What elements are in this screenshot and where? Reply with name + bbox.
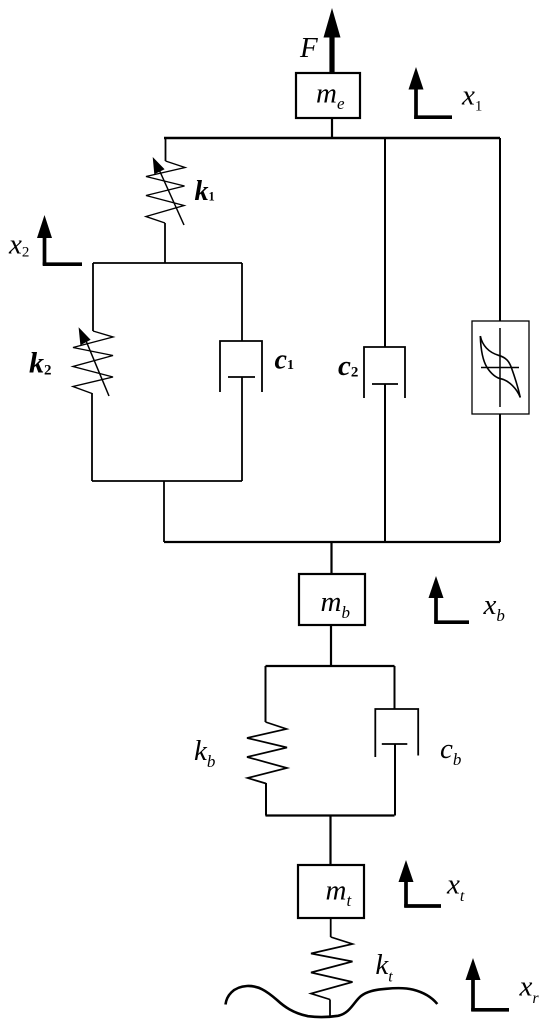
adjust arrow through k1 [153,157,184,225]
wire mt to spring kt [330,918,332,937]
wire top rail to hysteresis element [499,138,501,321]
label kt [375,949,393,986]
wire top rail to spring k1 [165,137,167,161]
force arrow F [324,8,341,73]
wire to damper cb [394,666,396,709]
wire from me to top rail [331,118,333,138]
label kb [194,735,215,771]
mass mt [298,865,364,918]
wire top rail to damper c2 [384,138,386,347]
axis xb [429,576,505,625]
hysteresis element box [472,321,529,414]
spring kt [311,937,353,1000]
kb-cb top rail wire [266,665,395,667]
lower rail wire [164,541,500,543]
axis xr [466,958,540,1011]
road profile [226,986,438,1017]
wire spring kb to bottom rail [265,783,267,816]
damper cb [375,709,418,816]
wire mb to kb-cb frame [330,625,332,666]
label k2 [29,347,52,380]
axis x1 [409,67,483,119]
kb-cb bottom rail wire [266,814,395,816]
inner top rail wire [93,262,242,264]
inner bottom rail wire [92,480,242,482]
axis xt [399,860,465,907]
wire kb-cb frame to mass mt [329,816,331,866]
top rail wire [164,137,500,139]
wire inner rail to spring k2 [92,263,94,331]
label cb [440,733,461,769]
wire spring k1 to inner rail [164,223,166,263]
spring k2 [73,331,113,394]
wire spring k2 to inner bottom rail [91,393,93,481]
mass me [296,73,360,118]
svg-text:F: F [299,32,318,64]
wire lower rail to mass mb [330,542,332,574]
label k1 [195,176,215,207]
spring k1 [146,161,185,223]
wire to spring kb [265,666,267,722]
label c2 [338,350,358,382]
axis x2 [8,215,82,265]
wire inner rail to damper c1 [241,263,243,341]
wire hysteresis element to lower rail [499,414,501,542]
damper c1 [220,341,262,481]
wire inner bottom rail to lower rail [163,481,165,542]
label F [299,32,318,64]
label c1 [275,345,294,376]
adjust arrow through k2 [79,327,109,396]
spring kb [247,722,287,784]
mass mb [299,574,365,625]
damper c2 [364,347,405,542]
wire spring kt to road [329,1000,331,1017]
